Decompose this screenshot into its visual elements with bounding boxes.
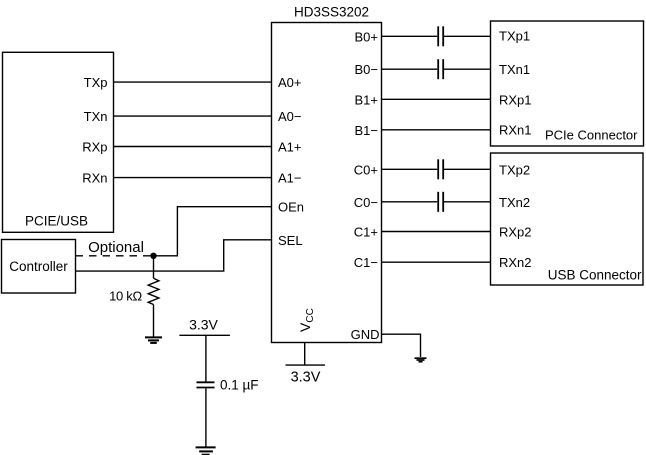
- svg-text:C0−: C0−: [354, 195, 378, 210]
- svg-text:VCC: VCC: [297, 308, 316, 332]
- svg-text:PCIE/USB: PCIE/USB: [25, 214, 88, 229]
- wire Optional dashed Controller to junction: [76, 255, 151, 257]
- wire RXp to A1+: [114, 146, 272, 148]
- svg-text:RXp2: RXp2: [499, 224, 532, 239]
- wire C0- to cap: [382, 201, 438, 203]
- wire capacitor C2 to ground: [205, 388, 207, 446]
- PCIE/USB source box: [3, 52, 114, 232]
- resistor R1 zigzag 10 kOhm: [148, 278, 159, 304]
- svg-text:TXp2: TXp2: [499, 162, 530, 177]
- svg-text:OEn: OEn: [278, 200, 304, 215]
- wire TXn to A0-: [114, 115, 272, 117]
- svg-text:HD3SS3202: HD3SS3202: [294, 4, 369, 19]
- wire B1+ to RXp1: [382, 98, 491, 100]
- junction node dot: [150, 253, 156, 259]
- wire C1- to RXn2: [382, 261, 491, 263]
- ground symbol at GND pin: [415, 358, 427, 362]
- wire SEL to Controller: [76, 240, 272, 271]
- svg-text:B1−: B1−: [355, 123, 379, 138]
- svg-text:B0+: B0+: [355, 29, 379, 44]
- svg-text:A1−: A1−: [278, 171, 302, 186]
- svg-text:SEL: SEL: [278, 233, 303, 248]
- svg-text:A0+: A0+: [278, 75, 302, 90]
- USB Connector box: [491, 153, 644, 285]
- svg-text:C1−: C1−: [354, 255, 378, 270]
- capacitor on B0- line: [438, 59, 443, 79]
- svg-text:A1+: A1+: [278, 140, 302, 155]
- wire cap to TXp1: [444, 35, 491, 37]
- svg-text:B1+: B1+: [355, 92, 379, 107]
- svg-text:RXp1: RXp1: [499, 92, 532, 107]
- svg-text:3.3V: 3.3V: [189, 316, 218, 332]
- wire B0+ to cap: [382, 35, 438, 37]
- svg-text:TXn1: TXn1: [499, 62, 530, 77]
- svg-text:TXn: TXn: [84, 109, 108, 124]
- svg-text:C0+: C0+: [354, 162, 378, 177]
- svg-text:TXp1: TXp1: [499, 29, 530, 44]
- svg-text:RXp: RXp: [82, 140, 107, 155]
- ground symbol below resistor: [145, 337, 162, 343]
- capacitor on C0- line: [438, 192, 443, 212]
- svg-text:B0−: B0−: [355, 62, 379, 77]
- svg-text:Controller: Controller: [9, 259, 68, 274]
- wire C0+ to cap: [382, 168, 438, 170]
- svg-text:RXn: RXn: [82, 171, 107, 186]
- resistor R1 wire from junction: [153, 256, 155, 278]
- wire VCC pin to 3.3V bar: [304, 343, 306, 366]
- 3.3V supply rail left bar: [179, 334, 230, 336]
- Controller box: [2, 240, 76, 294]
- wire resistor to ground: [153, 305, 155, 337]
- svg-text:C1+: C1+: [354, 225, 378, 240]
- svg-text:A0−: A0−: [278, 109, 302, 124]
- capacitor on B0+ line: [438, 26, 443, 46]
- wire cap to TXn1: [444, 68, 491, 70]
- svg-text:TXn2: TXn2: [499, 195, 530, 210]
- wire 3.3V rail to capacitor C2: [205, 335, 207, 381]
- wire cap to TXn2: [444, 201, 491, 203]
- svg-text:Optional: Optional: [88, 239, 144, 256]
- capacitor on C0+ line: [438, 159, 443, 179]
- wire GND pin to ground: [382, 334, 421, 357]
- wire RXn to A1-: [114, 177, 272, 179]
- svg-text:USB Connector: USB Connector: [548, 267, 642, 282]
- svg-text:3.3V: 3.3V: [291, 370, 321, 386]
- svg-text:GND: GND: [351, 327, 380, 342]
- PCIe Connector box: [491, 21, 644, 146]
- wire B1- to RXn1: [382, 129, 491, 131]
- capacitor C2 0.1 uF plates: [197, 382, 215, 387]
- wire cap to TXp2: [444, 168, 491, 170]
- ground symbol below capacitor C2: [196, 447, 216, 454]
- svg-text:PCIe Connector: PCIe Connector: [545, 128, 638, 143]
- wire TXp to A0+: [114, 81, 272, 83]
- 3.3V supply bar under VCC: [286, 364, 326, 366]
- wire OEn to junction: [154, 207, 272, 256]
- wire B0- to cap: [382, 68, 438, 70]
- svg-text:TXp: TXp: [84, 75, 108, 90]
- svg-text:RXn1: RXn1: [499, 122, 532, 137]
- svg-text:0.1 µF: 0.1 µF: [220, 377, 259, 392]
- svg-text:RXn2: RXn2: [499, 255, 532, 270]
- IC U1 HD3SS3202 body: [272, 23, 382, 343]
- svg-text:10 kΩ: 10 kΩ: [109, 288, 142, 303]
- wire C1+ to RXp2: [382, 231, 491, 233]
